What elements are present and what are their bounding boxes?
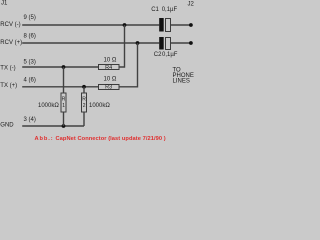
svg-text:0,1µF: 0,1µF xyxy=(162,52,178,58)
svg-text:J1: J1 xyxy=(1,1,8,7)
svg-text:J2: J2 xyxy=(188,1,195,7)
junction dot on RCV(+) xyxy=(136,41,140,45)
wire R2 bottom lead xyxy=(83,113,85,127)
wire GND segment xyxy=(22,125,84,127)
svg-text:10 Ω: 10 Ω xyxy=(104,77,117,83)
svg-text:CapNet Connector (last update: CapNet Connector (last update 7/21/90 ) xyxy=(56,136,166,142)
junction dot on TX(+) xyxy=(82,85,86,89)
wire RCV(+) left segment xyxy=(22,42,159,44)
svg-text:R: R xyxy=(82,96,86,102)
wire R3 right lead xyxy=(119,43,138,87)
junction dot on RCV(-) xyxy=(123,23,127,27)
resistor R4 xyxy=(99,65,120,70)
wire TX(+) segment xyxy=(22,86,98,88)
svg-text:LINES: LINES xyxy=(173,79,190,85)
svg-text:4 (6): 4 (6) xyxy=(24,77,36,83)
wire R4 right lead xyxy=(119,25,125,67)
wire RCV(+) right segment to J2 xyxy=(170,42,189,44)
svg-text:10 Ω: 10 Ω xyxy=(104,58,117,64)
wire TX(-) segment xyxy=(22,66,98,68)
svg-text:R4: R4 xyxy=(105,65,112,71)
svg-text:9 (5): 9 (5) xyxy=(24,15,36,21)
svg-text:R: R xyxy=(62,96,66,102)
capacitor C2 xyxy=(159,37,164,50)
svg-text:1: 1 xyxy=(62,103,65,109)
svg-text:3 (4): 3 (4) xyxy=(24,117,36,123)
svg-text:R3: R3 xyxy=(105,85,112,91)
resistor R2 xyxy=(82,93,87,112)
wire R2 top lead xyxy=(83,87,85,93)
junction dot on TX(-) xyxy=(62,65,66,69)
junction dot on GND xyxy=(62,124,66,128)
svg-text:GND: GND xyxy=(0,122,14,128)
svg-text:TX (+): TX (+) xyxy=(0,83,17,89)
terminal dot J2 line 2 xyxy=(189,41,193,45)
wire R1 bottom lead xyxy=(63,113,65,127)
svg-text:RCV (-): RCV (-) xyxy=(0,22,20,28)
svg-text:Abb.:: Abb.: xyxy=(35,136,54,142)
terminal dot J2 line 1 xyxy=(189,23,193,27)
wire RCV(-) right segment to J2 xyxy=(170,24,189,26)
wire RCV(-) left segment xyxy=(22,24,159,26)
wire R1 top lead xyxy=(63,67,65,93)
resistor R1 xyxy=(61,93,66,112)
resistor R3 xyxy=(99,85,120,90)
svg-text:8 (6): 8 (6) xyxy=(24,33,36,39)
svg-text:2: 2 xyxy=(83,103,86,109)
svg-text:TX (-): TX (-) xyxy=(0,66,15,72)
svg-text:RCV (+): RCV (+) xyxy=(0,40,22,46)
svg-text:5 (3): 5 (3) xyxy=(24,59,36,65)
svg-text:C1: C1 xyxy=(151,7,159,13)
svg-text:1000kΩ: 1000kΩ xyxy=(38,103,59,109)
capacitor C1 xyxy=(159,18,164,32)
svg-text:C2: C2 xyxy=(154,52,162,58)
svg-text:0,1µF: 0,1µF xyxy=(162,7,178,13)
svg-text:1000kΩ: 1000kΩ xyxy=(89,103,110,109)
